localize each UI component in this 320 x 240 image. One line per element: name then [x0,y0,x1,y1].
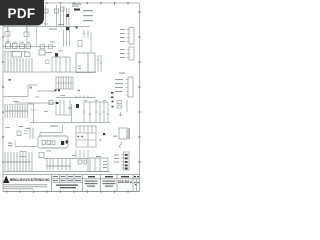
switching IC U1 [76,53,95,73]
label approvals cell [85,181,116,187]
svg-text:DSS-50Z A: DSS-50Z A [118,180,132,184]
inductor L1 [39,50,52,55]
schematic wires and components [3,5,110,172]
label sheet cell [134,182,139,185]
logo delta triangle [3,176,9,183]
label cap values [84,99,106,102]
label (5) [114,136,118,137]
wire primary ground bus [3,71,96,73]
label header dashes row1 [88,176,139,177]
label J3 pins [115,79,123,92]
label values row 2 [47,166,71,167]
label J2 pins [120,49,125,58]
filter cap CX1 [5,27,10,37]
label disclaimer lines [3,184,47,189]
svg-text:MERICA DELTA ELECTRONICS INC.: MERICA DELTA ELECTRONICS INC. [10,177,50,182]
label title row headers [53,176,82,181]
label mid right dashes [50,73,125,127]
node P1 dot [76,27,78,29]
wire drops from AC bus [8,27,70,47]
wire snubber verticals [84,102,108,123]
resistor network RN1 [5,105,28,118]
connector J4 pins [125,154,128,169]
label pin numbers [5,111,28,112]
capacitor C8 [46,60,50,64]
wire ic row bus [56,114,72,116]
heatsink outline HS1 [38,136,68,148]
wire bottom bus [3,171,110,173]
wire bias branch [15,140,37,147]
label B+ [8,126,31,146]
connector J2 [127,47,135,60]
wire vertical risers top cluster [46,5,70,27]
node marks left of J3 [111,92,114,98]
transistor Q1 [61,140,68,145]
wire control bus [15,102,56,104]
wire right of big box [97,55,102,72]
transformer T1 dot [66,27,69,30]
output stage box [78,158,108,172]
wire pwm verticals [28,100,72,123]
label J4 pins [114,155,119,163]
connector J1 [127,28,135,45]
diode D6 [76,104,79,108]
label values row [5,162,31,163]
label scattered 1 [5,24,76,156]
zener group left [17,128,33,140]
diode D5 [56,102,58,104]
bridge rectifier BD1 [6,43,31,49]
sheet border frame [3,3,140,192]
node labels top right [49,4,93,30]
label D [9,79,11,81]
PDF badge [0,0,44,26]
wire rectified bus [3,46,56,48]
wire mid drops [52,57,70,72]
node J dot [78,133,106,137]
wire branch x36 [36,27,38,47]
connector J4 [121,152,129,170]
wire secondary bus [56,97,95,99]
capacitor C9 [49,101,53,105]
label J1 pins [120,29,125,42]
node VCC [112,101,114,108]
svg-text:PDF: PDF [8,6,36,21]
wire pwm bus [40,125,63,137]
diode D1 [55,53,58,57]
wire mid bus [37,90,56,92]
border zone tick marks [2,2,141,193]
wire output bus [44,158,88,160]
connector J3 [126,77,134,97]
inductor L2 [39,153,70,171]
secondary diode ticks [76,96,88,98]
node K1 [55,90,61,92]
fuse F1 [44,7,64,13]
capacitor C7 [40,45,53,49]
varistor RV1 [66,9,80,18]
capacitor ticks mid [83,112,110,114]
output filter caps [5,152,32,172]
capacitor bank C1-C4 [4,52,32,72]
regulator group [117,100,127,116]
wire lower ground bus [30,122,110,124]
label bridge values [6,41,30,43]
title block frame [3,175,140,192]
wire feedback return [3,85,37,97]
optocoupler U2 pin grid [56,77,73,89]
transformer T2 [119,128,130,148]
capacitor pair C5 C6 [78,30,91,53]
node T tick [100,140,102,141]
resistor R8 mark [30,87,80,92]
filter cap CX2 [24,27,29,37]
wire comb top link [4,105,37,111]
label a5 [96,156,107,168]
wire output verticals upper [76,150,88,158]
label confidential text [56,185,78,189]
voltage table TB1 [76,126,96,147]
wire top AC bus [3,26,90,28]
